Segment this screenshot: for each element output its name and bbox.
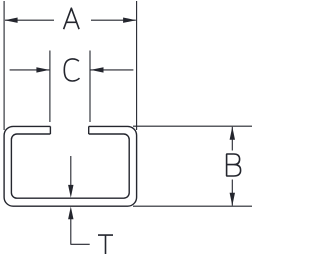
arrowhead T up — [68, 207, 73, 220]
label C — [64, 59, 79, 81]
arrowhead B down — [230, 193, 235, 206]
arrowhead A left — [5, 18, 18, 23]
dimension line B upper segment — [231, 127, 233, 151]
T arrow down (inside channel) — [70, 156, 72, 187]
dimension leader C left — [10, 69, 50, 71]
label A — [64, 8, 80, 29]
channel outer profile — [4, 126, 137, 206]
arrowhead C right — [91, 67, 104, 72]
extension line A left — [3, 1, 5, 130]
label T — [98, 235, 113, 254]
extension line B bottom — [133, 205, 252, 207]
channel inner profile — [11, 134, 129, 198]
arrowhead T down — [68, 185, 73, 198]
extension line B top — [133, 125, 252, 127]
label B — [226, 154, 240, 176]
arrowhead B up — [230, 127, 235, 140]
arrowhead C left — [36, 67, 49, 72]
extension line A right — [136, 1, 138, 130]
dimension leader C right — [91, 69, 134, 71]
extension line C left — [49, 51, 51, 123]
arrowhead A right — [123, 18, 136, 23]
dimension line A right segment — [91, 19, 136, 21]
dimension line B lower segment — [231, 180, 233, 206]
left lip face — [49, 126, 51, 134]
T arrow up with leader — [71, 218, 90, 244]
right lip face — [88, 126, 90, 134]
extension line C right — [89, 51, 91, 123]
dimension line A left segment — [5, 19, 54, 21]
